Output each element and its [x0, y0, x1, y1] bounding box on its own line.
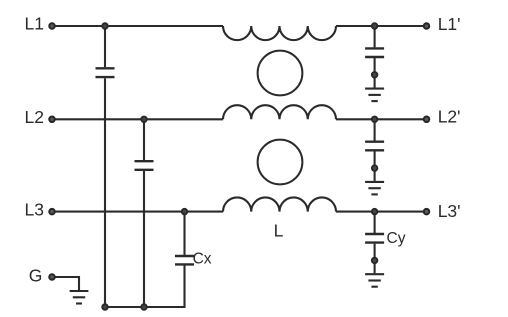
ground Cy1: [365, 89, 384, 102]
terminal L2': [424, 117, 430, 123]
junction L2/branch2: [141, 117, 147, 123]
wire vertical branch 1 upper: [104, 26, 106, 67]
terminal G: [49, 274, 55, 280]
wire L1 row right: [336, 25, 424, 27]
svg-text:G: G: [29, 266, 43, 286]
terminal L1: [49, 23, 55, 29]
wire vertical branch 2 lower: [143, 171, 145, 307]
wire L2 row right: [336, 118, 424, 120]
core circle 2: [258, 140, 303, 185]
core circle 1: [258, 51, 303, 96]
ground Cy3: [365, 274, 384, 287]
wire L1 row left: [56, 25, 224, 27]
svg-text:L1': L1': [438, 14, 461, 34]
capacitor X2: [135, 161, 154, 170]
junction Cy2/ground: [372, 165, 378, 171]
svg-text:Cy: Cy: [387, 230, 406, 247]
junction bus/branch2: [141, 304, 147, 310]
junction L1/Cy1: [372, 23, 378, 29]
svg-text:L3: L3: [25, 200, 44, 220]
wire vertical branch 3 upper: [183, 212, 185, 255]
wire L3 row left: [56, 211, 224, 213]
wire L2 row left: [56, 118, 224, 120]
inductor L winding: [223, 197, 336, 211]
ground Cy2: [365, 182, 384, 195]
svg-text:L2': L2': [438, 107, 461, 127]
junction bus/branch1: [102, 304, 108, 310]
wire vertical branch 2 upper: [143, 119, 145, 160]
wire vertical branch 1 lower: [104, 78, 106, 307]
ground G: [70, 291, 89, 304]
svg-text:L: L: [274, 221, 284, 241]
junction L3/Cy3: [372, 209, 378, 215]
junction Cy1/ground: [372, 72, 378, 78]
wire G branch: [56, 277, 80, 290]
capacitor Cy3 branch: [365, 212, 384, 274]
terminal L3: [49, 209, 55, 215]
inductor L2 winding: [223, 105, 336, 119]
capacitor X1: [96, 68, 115, 77]
junction L2/Cy2: [372, 117, 378, 123]
capacitor Cy1 branch: [365, 26, 384, 88]
junction L3/branch3: [182, 209, 188, 215]
terminal L2: [49, 117, 55, 123]
terminal L3': [424, 209, 430, 215]
inductor L1 winding: [223, 26, 336, 40]
terminal L1': [424, 23, 430, 29]
svg-text:L3': L3': [438, 201, 461, 221]
junction L1/branch1: [102, 23, 108, 29]
junction Cy3/ground: [372, 258, 378, 264]
capacitor Cy2 branch: [365, 119, 384, 181]
svg-text:L2: L2: [25, 107, 44, 127]
wire vertical branch 3 lower and bottom bus: [105, 265, 185, 307]
capacitor Cx: [175, 256, 194, 264]
wire L3 row right: [336, 211, 424, 213]
svg-text:L1: L1: [25, 13, 44, 33]
svg-text:Cx: Cx: [193, 250, 212, 267]
